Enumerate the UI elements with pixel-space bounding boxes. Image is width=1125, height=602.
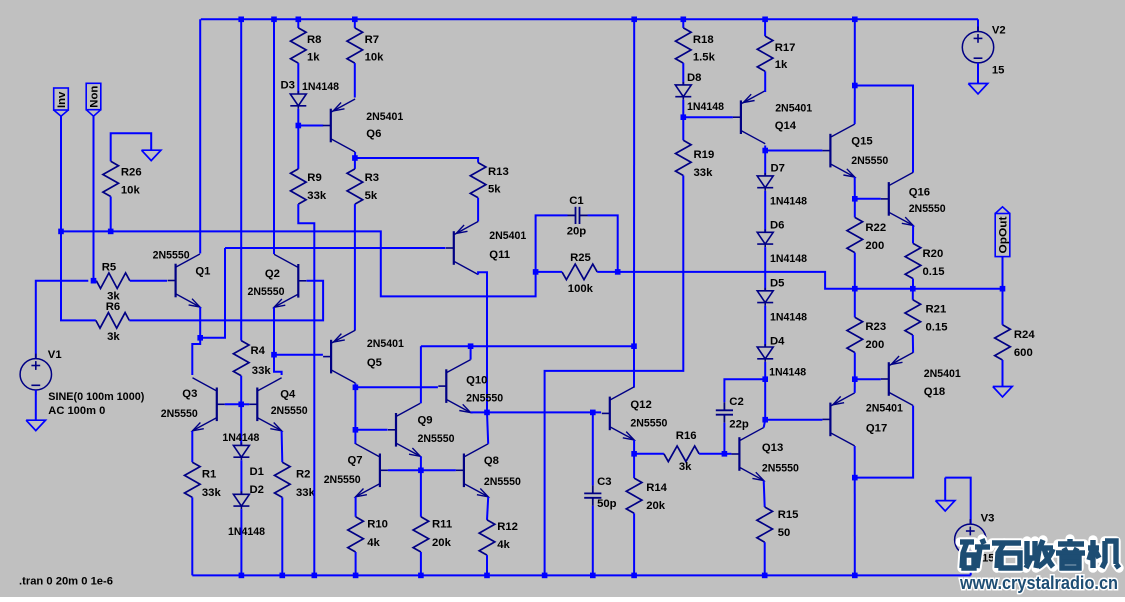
- svg-text:0.15: 0.15: [926, 322, 948, 334]
- wire C1 right: [588, 215, 618, 272]
- label Q15: [851, 136, 872, 148]
- svg-text:V2: V2: [992, 25, 1006, 37]
- wire node to R3: [354, 158, 356, 169]
- ground at V3: [936, 501, 955, 511]
- resistor R21: [905, 300, 921, 335]
- value 1N4148 of D4: [769, 367, 806, 379]
- wire R21 bottom to Q18 emitter: [912, 335, 914, 353]
- ground at V2: [968, 84, 987, 94]
- wire V1 top to R5: [36, 281, 89, 359]
- value 33k of R1: [202, 487, 222, 499]
- label R5: [102, 262, 116, 274]
- svg-text:2N5550: 2N5550: [762, 463, 799, 475]
- svg-text:20p: 20p: [567, 225, 587, 237]
- label D8: [687, 72, 701, 84]
- wire Q7 emitter to R10: [355, 497, 357, 517]
- value 2N5550 of Q15: [851, 155, 888, 167]
- value 2N5401 of Q5: [367, 338, 404, 350]
- junction top rail / VAS column: [631, 17, 637, 23]
- svg-text:4k: 4k: [367, 537, 380, 549]
- junction rail / R10: [353, 573, 359, 579]
- value 1k of R8: [307, 52, 320, 64]
- svg-text:0.15: 0.15: [923, 266, 945, 278]
- label R13: [488, 166, 509, 178]
- value 1N4148 of D1: [222, 432, 259, 444]
- resistor R24: [995, 325, 1011, 360]
- wire column to Q7 collector: [354, 430, 356, 444]
- wire V- to V3 top: [945, 478, 971, 524]
- wire C2 top: [724, 379, 765, 402]
- svg-text:1N4148: 1N4148: [228, 526, 265, 538]
- value AC of V1: [48, 405, 105, 417]
- wire node to R19: [682, 117, 684, 140]
- diode D5: [757, 288, 773, 306]
- wire Q10 emitter line to Q12 base: [471, 411, 601, 413]
- label V1: [48, 349, 62, 361]
- svg-text:33k: 33k: [202, 487, 222, 499]
- svg-text:R12: R12: [497, 521, 518, 533]
- wire Q14 base: [683, 116, 733, 118]
- svg-text:10k: 10k: [121, 185, 141, 197]
- value 2N5550 of Q10: [466, 393, 503, 405]
- wire rail to R18: [682, 19, 684, 28]
- label C3: [597, 476, 611, 488]
- wire D1 to D2: [240, 460, 242, 494]
- svg-text:1N4148: 1N4148: [769, 367, 806, 379]
- wire Q10 collector up: [470, 346, 472, 359]
- svg-text:Q18: Q18: [924, 386, 945, 398]
- svg-text:D5: D5: [770, 278, 784, 290]
- label R2: [296, 469, 310, 481]
- svg-text:D8: D8: [687, 72, 701, 84]
- svg-text:R8: R8: [307, 34, 321, 46]
- label R19: [694, 149, 715, 161]
- wire Q2 collector to rail: [273, 19, 275, 254]
- wire R18 to D8: [682, 63, 684, 85]
- junction top rail / R8: [296, 17, 302, 23]
- svg-text:V1: V1: [48, 349, 62, 361]
- transistor Q8: [456, 444, 488, 497]
- wire Q4 base to node: [241, 403, 249, 405]
- transistor Q3: [193, 378, 225, 431]
- resistor R7: [347, 28, 363, 63]
- wire bottom ground rail: [192, 574, 970, 576]
- junction Non / R5: [91, 278, 97, 284]
- wire Q9 emitter down: [420, 456, 422, 470]
- junction C3 tap: [590, 410, 596, 416]
- svg-text:Inv: Inv: [56, 91, 68, 108]
- label Q11: [489, 249, 510, 261]
- wire C1 left: [536, 215, 568, 272]
- svg-text:R9: R9: [307, 172, 321, 184]
- value 2N5550 of Q3: [161, 408, 198, 420]
- wire V2 bottom to ground: [977, 63, 979, 84]
- svg-text:33k: 33k: [307, 190, 327, 202]
- label D4: [770, 336, 785, 348]
- junction rail / R11: [418, 573, 424, 579]
- value 1N4148 of D8: [687, 101, 724, 113]
- svg-text:2N5550: 2N5550: [484, 476, 521, 488]
- svg-text:Q5: Q5: [367, 357, 382, 369]
- resistor R26: [103, 161, 119, 196]
- svg-text:R17: R17: [775, 42, 796, 54]
- flag Non input: [86, 83, 101, 116]
- transistor Q7: [356, 444, 388, 497]
- transistor Q4: [249, 378, 281, 431]
- label Q13: [762, 442, 783, 454]
- junction rail / R14: [631, 573, 637, 579]
- label Q14: [775, 120, 797, 132]
- value 1N4148 of D3: [302, 81, 339, 93]
- resistor R17: [757, 36, 773, 71]
- label Q9: [418, 415, 433, 427]
- svg-text:1N4148: 1N4148: [770, 312, 807, 324]
- svg-text:R7: R7: [365, 34, 379, 46]
- label V2: [992, 25, 1006, 37]
- junction top rail / R7: [352, 17, 358, 23]
- value 33k of R9: [307, 190, 327, 202]
- wire Q13 collector up: [764, 420, 766, 428]
- label OpOut: [998, 216, 1010, 253]
- junction output rail / R20 R21: [910, 286, 916, 292]
- wire Q14 collector to node: [764, 146, 766, 151]
- wire R2 bottom to rail: [281, 497, 283, 575]
- value 3k of R16: [679, 461, 692, 473]
- junction rail / D2: [239, 573, 245, 579]
- label R3: [365, 172, 379, 184]
- transistor Q13: [731, 428, 763, 481]
- svg-text:2N5401: 2N5401: [366, 111, 403, 123]
- wire column to Q9 base node: [354, 387, 356, 430]
- svg-text:R13: R13: [488, 166, 509, 178]
- svg-text:100k: 100k: [568, 283, 594, 295]
- wire VAS line: [421, 345, 634, 347]
- svg-text:R26: R26: [121, 167, 142, 179]
- wire R1 bottom to rail: [191, 497, 193, 575]
- value 200 of R23: [865, 339, 884, 351]
- wire node to Q8 base: [421, 469, 456, 471]
- svg-text:R4: R4: [251, 345, 266, 357]
- value 2N5550 of Q9: [418, 433, 455, 445]
- wire Q7 base to node: [388, 469, 421, 471]
- wire R8 to D3: [297, 63, 299, 94]
- label D7: [771, 163, 785, 175]
- transistor Q2: [274, 254, 306, 307]
- wire Q9 base: [355, 429, 387, 431]
- svg-text:Q7: Q7: [348, 455, 363, 467]
- wire R23 bottom to Q17 emitter: [854, 353, 856, 380]
- value 2N5401 of Q18: [924, 368, 961, 380]
- junction Q6 collector / R13 / R3: [352, 155, 358, 161]
- junction rail / R12: [484, 573, 490, 579]
- wire Q15 collector up: [854, 86, 856, 125]
- junction D4 / C2 top: [762, 376, 768, 382]
- wire D8 to Q14 base node: [682, 100, 684, 118]
- svg-text:2N5550: 2N5550: [909, 203, 946, 215]
- svg-text:C1: C1: [569, 195, 583, 207]
- svg-text:3k: 3k: [679, 461, 692, 473]
- wire D7 to D6: [764, 191, 766, 233]
- label Q17: [866, 423, 887, 435]
- wire rail to R4: [240, 19, 242, 340]
- capacitor C1: [568, 207, 588, 224]
- svg-text:2N5401: 2N5401: [924, 368, 961, 380]
- svg-text:Q11: Q11: [489, 249, 510, 261]
- wire R25 left: [536, 271, 562, 273]
- svg-text:3k: 3k: [107, 331, 120, 343]
- wire Inv to R6: [61, 231, 96, 320]
- label Q12: [630, 399, 651, 411]
- label R17: [775, 42, 796, 54]
- resistor R8: [291, 28, 307, 63]
- junction top rail / R17: [762, 17, 768, 23]
- wire R20 bottom to output rail: [912, 279, 914, 289]
- svg-text:1N4148: 1N4148: [222, 432, 259, 444]
- wire R15 bottom to rail: [764, 542, 766, 575]
- wire Q10 base: [355, 386, 438, 388]
- value 15 of V3: [982, 553, 995, 565]
- value 50 of R15: [778, 527, 791, 539]
- value 50p of C3: [597, 498, 617, 510]
- svg-text:20k: 20k: [432, 537, 452, 549]
- label Q18: [924, 386, 945, 398]
- svg-text:R10: R10: [367, 519, 388, 531]
- wire Q9 collector up: [420, 346, 422, 403]
- junction Q10 collector / VAS line: [468, 343, 474, 349]
- svg-text:D1: D1: [250, 466, 264, 478]
- value 2N5401 of Q14: [775, 103, 812, 115]
- svg-text:C2: C2: [729, 396, 743, 408]
- transistor Q15: [822, 124, 854, 177]
- flag OpOut output: [995, 207, 1010, 257]
- junction D3 / Q6 base / R9: [296, 123, 302, 129]
- wire Q16 emitter to R20: [912, 225, 914, 243]
- wire Q1 emitter down: [199, 307, 201, 338]
- value 4k of R10: [367, 537, 380, 549]
- junction Q9 base tap: [353, 427, 359, 433]
- capacitor C3: [584, 485, 601, 505]
- label Q1: [195, 266, 210, 278]
- label Q10: [466, 375, 487, 387]
- resistor R13: [470, 163, 486, 198]
- svg-text:Q9: Q9: [418, 415, 433, 427]
- value 1.5k of R18: [693, 52, 716, 64]
- svg-text:2N5550: 2N5550: [153, 249, 190, 261]
- resistor R9: [291, 169, 307, 204]
- svg-text:2N5401: 2N5401: [489, 230, 526, 242]
- resistor R14: [626, 478, 642, 513]
- wire Q3 base to node: [225, 403, 241, 405]
- wire Q17 base: [765, 419, 822, 421]
- value 1k of R17: [775, 59, 788, 71]
- svg-text:R3: R3: [365, 172, 379, 184]
- wire Q18 collector down: [855, 406, 913, 478]
- ground at R26: [142, 150, 161, 160]
- svg-text:R25: R25: [570, 252, 591, 264]
- transistor Q16: [881, 172, 913, 225]
- wire D6 to D5: [764, 247, 766, 291]
- resistor R1: [185, 462, 201, 497]
- value 33k of R19: [694, 167, 714, 179]
- resistor R22: [847, 217, 863, 252]
- wire top V+ rail: [201, 18, 978, 20]
- svg-text:2N5401: 2N5401: [367, 338, 404, 350]
- wire Q15 emitter down: [854, 177, 856, 199]
- junction R23 / Q17 emitter / Q18 base: [852, 376, 858, 382]
- junction Q3 Q4 base / R4 / D1: [238, 402, 244, 408]
- wire ground stub at V3: [944, 478, 946, 501]
- svg-text:D7: D7: [771, 163, 785, 175]
- wire node to C3: [592, 412, 594, 485]
- wire VAS junction to Q12 collector: [633, 346, 635, 387]
- wire Q3 emitter to R1: [191, 431, 193, 462]
- svg-text:4k: 4k: [497, 539, 510, 551]
- value 1N4148 of D2: [228, 526, 265, 538]
- wire rail to junction: [854, 19, 856, 85]
- wire Q5 collector node: [354, 383, 356, 387]
- wire D4 to C2 node: [764, 362, 766, 379]
- junction Q17 collector / V- node: [852, 475, 858, 481]
- svg-text:2N5550: 2N5550: [466, 393, 503, 405]
- label Q4: [280, 389, 296, 401]
- wire Q17 collector down: [854, 446, 856, 575]
- wire Q6 collector to node: [354, 152, 356, 158]
- svg-text:V3: V3: [981, 513, 995, 525]
- wire C3 bottom to rail: [592, 506, 594, 576]
- wire output rail to R23: [854, 289, 856, 318]
- svg-text:2N5401: 2N5401: [866, 403, 903, 415]
- svg-text:2N5550: 2N5550: [161, 408, 198, 420]
- transistor Q11: [446, 222, 478, 275]
- diode D6: [757, 229, 773, 247]
- svg-text:2N5550: 2N5550: [851, 155, 888, 167]
- svg-text:15: 15: [992, 65, 1005, 77]
- value 33k of R2: [296, 487, 316, 499]
- value 2N5550 of Q4: [271, 405, 308, 417]
- wire R6 right to Q2 base: [129, 281, 323, 321]
- svg-text:R24: R24: [1014, 329, 1035, 341]
- junction R25 C1 left / feedback: [533, 269, 539, 275]
- value 2N5550 of Q13: [762, 463, 799, 475]
- junction output rail / R22 R23: [852, 286, 858, 292]
- value 2N5401 of Q6: [366, 111, 403, 123]
- wire R25 right: [597, 271, 618, 273]
- svg-text:1N4148: 1N4148: [770, 196, 807, 208]
- junction rail / R19 path: [542, 573, 548, 579]
- value 20k of R14: [646, 500, 666, 512]
- wire R12 bottom to rail: [486, 555, 488, 575]
- svg-text:200: 200: [865, 339, 884, 351]
- svg-text:33k: 33k: [296, 487, 316, 499]
- wire rail to R24: [1002, 289, 1004, 325]
- wire Q11 collector jog: [478, 272, 487, 412]
- svg-text:50: 50: [778, 527, 791, 539]
- label R22: [865, 222, 886, 234]
- label Q5: [367, 357, 382, 369]
- wire C2 bottom: [723, 423, 725, 454]
- value 3k of R6: [107, 331, 120, 343]
- svg-text:200: 200: [865, 240, 884, 252]
- diode D1: [233, 442, 249, 460]
- wire R3 to Q5 emitter: [354, 204, 356, 330]
- svg-text:Q2: Q2: [265, 268, 280, 280]
- wire R26 top to ground: [111, 133, 152, 161]
- resistor R11: [413, 517, 429, 552]
- junction top rail / Q15 collector column: [852, 17, 858, 23]
- svg-text:1k: 1k: [775, 59, 788, 71]
- label D5: [770, 278, 784, 290]
- wire Q8 emitter to R12: [487, 497, 488, 520]
- value 20p of C1: [567, 225, 587, 237]
- resistor R25: [562, 264, 597, 280]
- svg-text:AC 100m 0: AC 100m 0: [48, 405, 105, 417]
- wire Q4 emitter to R2: [281, 431, 284, 462]
- junction D8 / Q14 base / R19: [681, 114, 687, 120]
- value 3k of R5: [107, 291, 120, 303]
- resistor R23: [847, 317, 863, 352]
- value 1N4148 of D6: [770, 253, 807, 265]
- resistor R4: [233, 341, 249, 376]
- svg-text:Non: Non: [88, 86, 100, 108]
- label R4: [251, 345, 266, 357]
- svg-text:D4: D4: [770, 336, 785, 348]
- junction R16 / C2 / Q13 base: [722, 451, 728, 457]
- value 2N5550 of Q1: [153, 249, 190, 261]
- wire V1 bottom to ground: [35, 390, 37, 420]
- svg-text:600: 600: [1014, 347, 1033, 359]
- diode D7: [757, 173, 773, 191]
- wire R5 right to Q1 base: [130, 280, 167, 282]
- junction Q12 emitter / R16 / R14: [631, 451, 637, 457]
- label D1: [250, 466, 264, 478]
- transistor Q17: [822, 393, 854, 446]
- transistor Q6: [323, 99, 355, 152]
- svg-text:D6: D6: [770, 220, 784, 232]
- svg-text:1.5k: 1.5k: [693, 52, 716, 64]
- value 2N5550 of Q12: [630, 418, 667, 430]
- svg-text:10k: 10k: [365, 52, 385, 64]
- label R10: [367, 519, 388, 531]
- value 5k of R3: [365, 190, 378, 202]
- voltage source V3: [955, 519, 986, 560]
- resistor R18: [676, 28, 692, 63]
- svg-text:Q14: Q14: [775, 120, 797, 132]
- svg-text:2N5550: 2N5550: [630, 418, 667, 430]
- wire Q2 emitter down: [273, 308, 275, 355]
- junction Q1 emitter / Q3 collector: [197, 335, 203, 341]
- wire Q6 base: [298, 125, 323, 127]
- watermark url www.crystalradio.cn: [959, 573, 1118, 593]
- wire junction to Q16 collector: [855, 86, 913, 173]
- label Q2: [265, 268, 280, 280]
- label Q6: [366, 128, 381, 140]
- svg-text:20k: 20k: [646, 500, 666, 512]
- svg-text:50p: 50p: [597, 498, 617, 510]
- value 0.15 of R20: [923, 266, 945, 278]
- svg-text:Q1: Q1: [195, 266, 210, 278]
- svg-text:R19: R19: [694, 149, 715, 161]
- wire rail to R7: [354, 19, 356, 28]
- junction Q14 collector / D7 / Q15 base: [762, 148, 768, 154]
- label C2: [729, 396, 743, 408]
- svg-text:OpOut: OpOut: [998, 216, 1010, 253]
- label C1: [569, 195, 583, 207]
- label R25: [570, 252, 591, 264]
- wire node to R14: [633, 454, 635, 478]
- wire R7 to Q6 emitter: [354, 63, 356, 97]
- label R23: [865, 321, 886, 333]
- transistor Q10: [438, 360, 470, 413]
